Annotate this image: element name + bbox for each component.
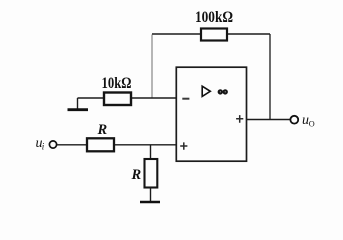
op-amp minus sign: [182, 98, 189, 100]
op-amp plus sign (output): [236, 115, 243, 123]
op-amp plus sign (non-inverting): [180, 142, 187, 149]
output terminal uo: [290, 116, 298, 124]
svg-text:R: R: [131, 167, 142, 183]
op-amp U1 box: [176, 67, 246, 161]
ground left: [77, 98, 79, 109]
input terminal ui: [49, 141, 56, 148]
wire output horizontal: [247, 119, 291, 121]
op-amp triangle symbol: [202, 86, 210, 96]
resistor Rf 100k body: [201, 29, 227, 41]
svg-text:10kΩ: 10kΩ: [102, 75, 132, 92]
resistor R2 body: [87, 138, 114, 151]
resistor R1 10k body: [104, 93, 131, 106]
wire feedback right vertical: [269, 34, 271, 120]
wire top feedback horizontal: [152, 33, 270, 35]
svg-text:100kΩ: 100kΩ: [195, 9, 233, 26]
wire feedback left vertical: [151, 35, 153, 99]
svg-text:O: O: [309, 120, 315, 129]
wire junction to shunt resistor: [150, 145, 152, 159]
ground bottom: [140, 201, 160, 204]
svg-text:R: R: [97, 122, 108, 138]
wire inverting input horizontal: [78, 97, 177, 99]
wire non-inverting input horizontal: [57, 144, 176, 146]
wire shunt resistor to ground: [150, 188, 152, 202]
resistor R3 shunt body: [145, 159, 158, 188]
op-amp infinity symbol: [219, 90, 227, 93]
